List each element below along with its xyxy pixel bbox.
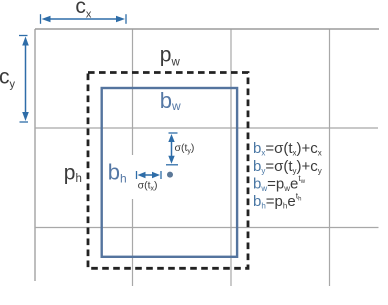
- dimension c_x arrow: [41, 14, 127, 24]
- predicted box b (blue): [102, 88, 237, 257]
- dimension sigma(t_y) arrow: [166, 133, 178, 165]
- grid horizontal line y=128: [35, 127, 378, 129]
- grid vertical line x=231: [230, 29, 232, 286]
- dimension c_y arrow: [19, 36, 29, 123]
- white patch over grid line near sigma labels: [129, 155, 165, 199]
- dimension sigma(t_x) arrow: [137, 171, 162, 179]
- prior box p (dashed): [88, 73, 248, 269]
- grid vertical line x=329.5: [329, 29, 331, 286]
- grid vertical line x=35: [34, 29, 36, 281]
- svg-text:σ(tx): σ(tx): [138, 179, 158, 192]
- grid vertical line x=132.5: [132, 29, 134, 286]
- grid horizontal line y=227.5: [35, 227, 379, 229]
- grid horizontal line y=29: [35, 28, 379, 30]
- center point dot: [167, 172, 173, 178]
- svg-text:bh=pheth: bh=pheth: [253, 191, 301, 211]
- svg-text:σ(ty): σ(ty): [175, 142, 195, 155]
